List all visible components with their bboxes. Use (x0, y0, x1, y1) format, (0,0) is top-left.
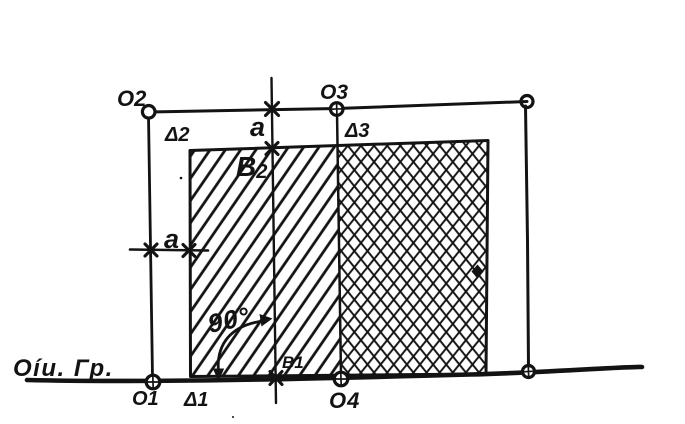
node X mark on central line at rect top (266, 143, 278, 155)
cross-hatched area (right part of building rectangle) (338, 141, 487, 376)
svg-text:O4: O4 (329, 388, 360, 413)
svg-text:Δ1: Δ1 (183, 389, 209, 411)
ink speck below rectangle (232, 416, 234, 418)
svg-text:a: a (164, 224, 179, 254)
point O3 (circle) (330, 103, 343, 116)
wire: O3-O4 vertical line (337, 112, 341, 375)
node X mark on central line at top (alpha) (266, 103, 279, 116)
svg-text:B1: B1 (282, 353, 304, 372)
wire: top traverse line O2-O3-right corner (150, 102, 527, 113)
svg-text:a: a (250, 112, 265, 142)
svg-text:O2: O2 (117, 86, 147, 111)
baseline (thick): Осн.Гр. line (27, 367, 642, 381)
single-hatched area B (left part of building rectangle) (190, 147, 341, 377)
wire: central alignment line (vertical through a-marks and B1) (272, 78, 277, 403)
node X mark on rect left edge (183, 245, 195, 257)
90-degree arc arrow (213, 314, 273, 382)
point top-right corner (circle) (521, 96, 533, 108)
wire: left traverse side O2-O1 (149, 116, 153, 377)
point O4 (circle) (334, 372, 348, 386)
svg-text:Δ3: Δ3 (344, 120, 370, 142)
node X mark B1 on baseline (270, 372, 282, 385)
wire: right traverse side (526, 106, 529, 368)
point bottom-right corner (circle) (523, 366, 535, 378)
svg-text:O1: O1 (132, 388, 159, 410)
svg-text:O3: O3 (320, 81, 348, 104)
svg-text:Δ2: Δ2 (164, 124, 190, 146)
ink speck near B2 (180, 177, 183, 180)
node X mark on left traverse line (145, 244, 157, 256)
point O2 (circle) (142, 106, 155, 119)
svg-text:Oíи. Гр.: Oíи. Гр. (13, 355, 114, 382)
wire: short dimension line for a (left) (130, 250, 208, 251)
building rectangle outline (190, 141, 488, 377)
ink blot (diamond) on right edge of cross-hatch (472, 265, 484, 279)
point O1 (circle) (146, 375, 160, 389)
